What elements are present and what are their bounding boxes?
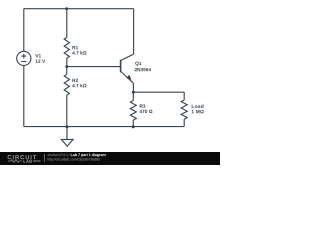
logo LAB text	[23, 160, 32, 163]
ground	[66, 127, 68, 140]
label V1 value	[36, 59, 46, 62]
label R2 name	[72, 79, 78, 82]
wire: emitter vertical	[132, 83, 134, 92]
wire: collector vertical	[133, 9, 135, 55]
wire: base wire from node to Q1	[67, 66, 121, 68]
label R3 name	[140, 104, 146, 107]
resistor R1	[64, 37, 69, 58]
wire: emitter horizontal to Load	[133, 91, 184, 93]
resistor Load	[181, 100, 187, 119]
label Q1 name	[135, 62, 141, 66]
node: ground junction	[66, 125, 69, 128]
transistor Q1	[120, 60, 122, 73]
footer bar	[0, 152, 220, 165]
logo CIRCUIT text	[8, 155, 37, 159]
node: top rail / R1 junction	[65, 7, 68, 10]
wire: middle column below R2	[66, 95, 68, 127]
resistor R2	[64, 74, 69, 95]
wire: left vertical upper (V1 top lead)	[23, 9, 25, 52]
label R1 name	[72, 46, 78, 49]
wire: top rail	[24, 8, 134, 10]
label R2 value	[72, 84, 86, 87]
node: R3 bottom junction	[132, 125, 135, 128]
logo tail line	[33, 160, 41, 162]
label Load name	[192, 104, 204, 108]
label Q1 value	[135, 68, 151, 71]
footer separator	[43, 154, 45, 162]
wire: left vertical lower (V1 bottom lead)	[23, 66, 25, 127]
voltage source V1	[17, 51, 31, 65]
wire: middle column between R1 and R2	[66, 58, 68, 74]
wire: Load bottom lead	[183, 119, 185, 126]
wire: Load top lead	[183, 92, 185, 100]
logo zigzag	[8, 160, 22, 163]
node: base junction	[65, 65, 68, 68]
label R1 value	[72, 51, 86, 54]
wire: R3 bottom lead	[132, 120, 134, 127]
label V1 name	[35, 54, 41, 57]
wire: emitter node to R3	[132, 92, 134, 100]
label Load value	[192, 110, 204, 113]
wire: middle column top (to R1)	[66, 9, 68, 38]
footer url text	[47, 158, 99, 161]
label R3 value	[139, 110, 152, 113]
wire: bottom rail	[24, 126, 184, 128]
resistor R3	[130, 101, 136, 121]
node: emitter junction	[132, 91, 135, 94]
footer title text	[71, 153, 106, 157]
footer author text	[47, 153, 69, 156]
emitter arrowhead	[126, 75, 131, 80]
